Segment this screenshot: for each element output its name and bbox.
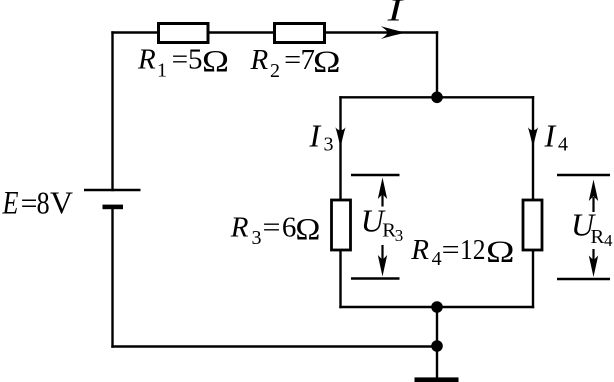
resistor R2: [275, 24, 325, 43]
arrow current I on top wire: [381, 26, 406, 39]
node junction bottom: [431, 301, 443, 313]
wire left side battery top: [111, 33, 113, 191]
node junction ground: [431, 340, 443, 352]
wire node to ground node: [436, 307, 438, 378]
wire left side battery bottom: [111, 209, 113, 347]
resistor R3: [332, 200, 351, 250]
UR4 measure bar top: [557, 174, 610, 176]
UR3 arrow up: [378, 178, 387, 207]
arrow current I4 on right branch: [528, 127, 538, 148]
wire between R1 and R2: [208, 31, 275, 33]
arrow current I3 on left branch: [335, 127, 345, 148]
wire bottom battery to node: [113, 345, 438, 347]
battery E short plate: [103, 205, 124, 210]
UR4 arrow down: [589, 249, 598, 277]
resistor R4: [523, 200, 542, 250]
wire right branch lower: [532, 250, 534, 307]
UR3 measure bar top: [351, 174, 400, 176]
wire parallel top: [341, 96, 534, 98]
wire left branch upper: [339, 97, 341, 200]
UR4 measure bar bottom: [557, 278, 610, 280]
UR3 arrow down: [378, 245, 387, 277]
wire top from battery to R1: [113, 31, 159, 33]
UR4 arrow up: [589, 180, 598, 213]
wire parallel bottom: [341, 306, 534, 308]
ground: [415, 377, 459, 382]
svg-text:E=8V: E=8V: [2, 185, 74, 222]
svg-text:I: I: [386, 0, 404, 28]
wire R2 to top-right corner: [325, 31, 437, 33]
svg-text:R3=6Ω: R3=6Ω: [230, 211, 321, 249]
node junction top: [431, 92, 443, 104]
battery E long plate: [84, 189, 141, 192]
UR3 measure bar bottom: [351, 277, 400, 279]
svg-text:R4=12Ω: R4=12Ω: [410, 233, 514, 270]
wire right branch upper: [532, 97, 534, 200]
resistor R1: [159, 24, 209, 43]
wire right vertical top: [436, 33, 438, 98]
wire left branch lower: [339, 250, 341, 307]
